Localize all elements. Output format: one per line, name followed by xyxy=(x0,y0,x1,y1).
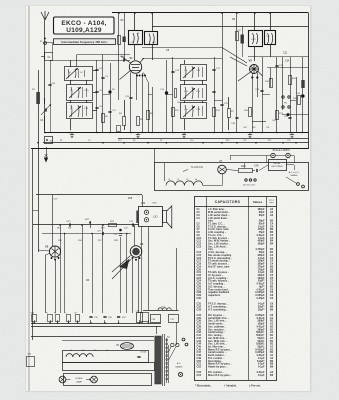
resistor R11 xyxy=(172,108,175,117)
pickup sockets PU xyxy=(282,57,284,110)
IFT core dashes xyxy=(144,33,146,43)
valve V3 AF amplifier xyxy=(49,246,60,257)
junction xyxy=(81,224,83,226)
coil L1 xyxy=(38,70,40,252)
AF bus lower xyxy=(42,233,131,235)
speaker return wire xyxy=(148,227,150,310)
chassis bus 4 xyxy=(31,148,309,150)
vertical wires AF section xyxy=(60,225,62,313)
IFT2 secondary box xyxy=(265,31,276,45)
T2 secondary tap wire xyxy=(168,345,170,383)
junction xyxy=(130,132,132,134)
wire xyxy=(152,87,154,133)
wire IFT1 feeds xyxy=(134,13,136,31)
capacitor C38 box xyxy=(151,315,161,323)
junction xyxy=(147,142,149,144)
bus 4 xyxy=(62,340,154,342)
mains plug terminals xyxy=(297,183,300,186)
wire V3 pins down xyxy=(45,255,47,313)
coil symbol xyxy=(71,105,72,117)
junction dots top bus xyxy=(118,12,120,14)
heater chain coils xyxy=(66,354,93,357)
wire to mains switch xyxy=(176,322,178,345)
wire xyxy=(70,60,72,67)
junction xyxy=(102,142,104,144)
valve V2 IF amplifier xyxy=(250,65,259,74)
loudspeaker xyxy=(163,211,167,223)
HT supply top bus xyxy=(112,12,309,14)
junction xyxy=(69,132,71,134)
resistor R4 xyxy=(123,117,126,126)
wire stub xyxy=(34,320,36,323)
junction xyxy=(295,142,297,144)
osc coil box L15 xyxy=(181,103,207,119)
capacitor C39 box xyxy=(141,313,149,322)
coil symbol xyxy=(185,66,186,78)
capacitor C31 xyxy=(132,223,134,226)
ground hatches under chassis bus xyxy=(70,133,74,138)
table header rule xyxy=(195,206,277,208)
junction xyxy=(166,142,168,144)
diagonal leads into V2 xyxy=(222,48,247,64)
capacitor C7a xyxy=(123,37,126,43)
switch arrow coil box 3 xyxy=(69,106,81,117)
wire stub xyxy=(90,320,92,323)
wire xyxy=(52,195,54,247)
capacitor C28 xyxy=(288,117,291,119)
heater chain coils xyxy=(166,181,203,186)
wire to C4 rail xyxy=(93,70,97,72)
capacitor C29 xyxy=(102,232,104,235)
switch arrow coil box 1 xyxy=(66,68,78,79)
wire V3 grid xyxy=(38,250,50,251)
capacitor table frame xyxy=(195,197,277,381)
switch arrow osc box 1 xyxy=(183,67,195,78)
junction xyxy=(289,132,291,134)
IFT coil xyxy=(149,34,154,45)
OPT secondary loops xyxy=(144,210,148,214)
lamp 2 xyxy=(91,376,98,383)
bus 3 xyxy=(31,336,154,338)
dropper from HT bus R2 xyxy=(118,13,120,100)
capacitor C15 xyxy=(129,97,132,99)
wire stub xyxy=(57,320,59,323)
coil box L3/L4 xyxy=(65,67,93,81)
wire stub xyxy=(139,320,141,323)
wire box riser xyxy=(154,149,156,163)
valve V1 frequency changer xyxy=(129,61,141,73)
output transformer box xyxy=(139,207,163,227)
wire stub xyxy=(104,320,106,323)
wire lamp feed xyxy=(230,155,266,157)
coil symbol xyxy=(68,69,69,78)
wire V1 pins xyxy=(130,73,132,133)
junction xyxy=(236,142,238,144)
resistor R7 xyxy=(228,109,231,118)
junction xyxy=(228,132,230,134)
junction xyxy=(276,132,278,134)
AF bus upper xyxy=(33,224,139,226)
junction xyxy=(151,132,153,134)
heater feed wire xyxy=(176,248,178,310)
IFT2 primary box xyxy=(249,31,263,47)
padder rail xyxy=(214,57,216,133)
vertical x=50 xyxy=(50,60,52,133)
V1 diagonal leads xyxy=(121,56,131,63)
chassis bus 2 xyxy=(118,138,309,140)
capacitor C17 dark xyxy=(241,35,244,44)
junction xyxy=(172,132,174,134)
volume control R20 xyxy=(90,221,92,228)
variable capacitor C2 xyxy=(45,108,47,111)
resistor R8 xyxy=(147,111,150,120)
left edge component box xyxy=(27,357,35,367)
coil box L5 xyxy=(67,85,93,101)
capacitor C37 box xyxy=(169,315,179,323)
junction xyxy=(249,132,251,134)
chassis bus 3 xyxy=(43,142,309,144)
wire V1 anode rail xyxy=(142,58,222,60)
junction xyxy=(221,142,223,144)
mains unit box xyxy=(155,163,309,191)
capacitor C36 xyxy=(103,316,106,318)
capacitor R24 xyxy=(117,316,120,318)
feedback diagonals xyxy=(112,256,131,273)
antenna xyxy=(44,20,46,133)
wire xyxy=(276,57,278,133)
wire V2 pins xyxy=(252,73,254,133)
wire lamp leads xyxy=(266,155,271,157)
electrolytic blob C13 xyxy=(166,60,168,133)
wire stub xyxy=(118,320,120,323)
long rail from HT xyxy=(222,13,224,133)
junction xyxy=(202,142,204,144)
voltage taps xyxy=(245,179,247,181)
junction xyxy=(37,142,39,144)
mains switch contacts xyxy=(171,343,174,346)
IFT1 secondary box xyxy=(145,32,158,45)
blob xyxy=(119,229,122,232)
table column rule 3 xyxy=(266,196,268,380)
line box component C48 xyxy=(45,137,53,144)
coil symbol xyxy=(185,105,186,117)
title box EKCO A104 xyxy=(54,17,115,34)
lamp 1 xyxy=(59,376,66,383)
valve V6 rectifier xyxy=(218,165,227,174)
wire top-left link xyxy=(45,42,53,44)
small box C15b xyxy=(117,126,121,132)
IFT coil xyxy=(268,33,273,44)
T2 core xyxy=(162,334,164,386)
resistor R3 xyxy=(102,114,105,123)
wire top rail AF xyxy=(36,194,142,196)
wire xyxy=(172,57,174,133)
wire xyxy=(290,57,292,133)
resistor R22 xyxy=(109,224,117,227)
junction xyxy=(255,142,257,144)
electrolytic C26 xyxy=(302,57,304,133)
resistor R16b xyxy=(270,79,273,88)
wire stub xyxy=(50,320,52,323)
wire V4 pins down xyxy=(132,258,134,314)
junction xyxy=(59,224,61,226)
wire xyxy=(50,60,130,62)
wire second top rail xyxy=(152,26,309,28)
wire jog upper xyxy=(282,114,309,116)
chassis bus 1 xyxy=(44,132,309,134)
coil box L6 xyxy=(67,103,93,119)
transformer T2 secondary loops xyxy=(166,338,168,383)
osc coil box L13 xyxy=(181,85,207,101)
switch arrow osc box 3 xyxy=(183,106,195,117)
switch arrow coil box 2 xyxy=(69,87,81,98)
heater box xyxy=(63,351,149,363)
junction xyxy=(44,132,46,134)
capacitor C8 xyxy=(142,47,222,49)
V2 lower-left lead xyxy=(238,72,251,81)
capacitor C11 xyxy=(108,111,111,113)
junction xyxy=(213,132,215,134)
junction xyxy=(123,142,125,144)
scan noise xyxy=(0,0,1,1)
oscillator rail xyxy=(148,82,150,133)
component row above bus xyxy=(32,315,37,322)
resistor R13 xyxy=(276,111,279,120)
scale lamp 2 xyxy=(286,153,290,157)
wire links row xyxy=(103,94,110,96)
capacitor C30 xyxy=(69,223,71,226)
IF frequency label xyxy=(54,39,116,45)
V2 right lead xyxy=(258,72,263,77)
resistor R40 xyxy=(239,169,253,173)
wire xyxy=(184,60,186,64)
junction xyxy=(64,233,66,235)
capacitor C1 xyxy=(45,53,53,61)
valve V4 output xyxy=(130,246,142,258)
wire stub xyxy=(148,320,150,323)
aerial terminal A xyxy=(44,42,47,45)
junction xyxy=(102,224,104,226)
junction xyxy=(261,132,263,134)
wire V4 anode xyxy=(134,226,136,246)
page gutter line xyxy=(28,6,30,391)
page edge shadow xyxy=(310,6,311,392)
table column rule 1 xyxy=(206,196,208,380)
capacitor C35 xyxy=(89,316,92,318)
wire L19 rail xyxy=(143,310,179,312)
junction xyxy=(91,233,93,235)
rectifier V5 xyxy=(121,343,134,350)
resistor R43 xyxy=(298,96,301,105)
chassis arrow below C48 xyxy=(46,147,48,159)
resistor R12 xyxy=(213,108,216,117)
junction xyxy=(301,132,303,134)
metal rectifier box xyxy=(269,160,287,171)
table column rule 2 xyxy=(248,196,250,380)
coil symbol xyxy=(71,87,72,98)
switch arrow osc box 2 xyxy=(183,88,195,99)
junction xyxy=(126,233,128,235)
wire stub xyxy=(77,320,79,323)
junction xyxy=(282,142,284,144)
transformer T2 primary winding xyxy=(155,336,162,384)
osc coil box L11 xyxy=(181,65,207,81)
scale lamp row xyxy=(64,374,152,386)
mains plug terminals xyxy=(182,338,185,341)
wire R40 up xyxy=(244,163,246,169)
scale lamp 1 xyxy=(271,153,275,157)
wire xyxy=(262,57,264,133)
earth terminal xyxy=(178,372,182,376)
capacitor C22 xyxy=(220,104,223,106)
IFT1 primary box xyxy=(129,31,143,45)
wire C24 rail xyxy=(248,56,309,58)
OPT primary winding xyxy=(136,211,139,224)
wire stub xyxy=(68,320,70,323)
IFT coil xyxy=(133,33,138,44)
wide box xyxy=(63,363,155,371)
junction xyxy=(109,132,111,134)
rail C3 xyxy=(102,55,104,133)
resistor R5 xyxy=(137,117,140,126)
power bus double xyxy=(31,323,161,325)
grid cap C14 xyxy=(123,58,125,61)
right HT rail xyxy=(308,13,310,149)
left rail xyxy=(32,149,34,340)
capacitor C40 xyxy=(256,169,258,172)
wire IFT2 feeds xyxy=(254,13,256,31)
resistor R10 xyxy=(249,108,252,117)
IFT2 core xyxy=(262,33,264,44)
junction xyxy=(141,132,143,134)
junction xyxy=(184,132,186,134)
coil symbol xyxy=(185,87,186,99)
box R28 xyxy=(137,313,143,323)
capacitor C28 xyxy=(119,233,122,235)
wire inside mains box xyxy=(226,170,238,171)
rail with electrolytic blob xyxy=(110,63,112,133)
rail C4 xyxy=(96,60,98,133)
dropper R6 xyxy=(236,13,238,133)
AVC rail xyxy=(267,67,309,69)
wire xyxy=(296,77,298,133)
junction xyxy=(96,132,98,134)
wire jog xyxy=(252,121,266,123)
IFT coil xyxy=(253,33,258,44)
